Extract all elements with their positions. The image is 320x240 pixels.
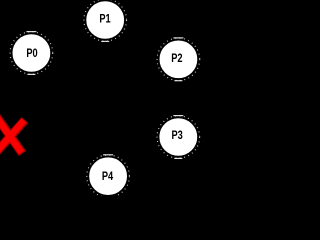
svg-text:P3: P3 [171, 128, 183, 142]
node P2 circle with halo [157, 38, 200, 81]
svg-text:P1: P1 [99, 11, 111, 25]
X dark rim stroke 1 [0, 116, 22, 154]
svg-text:P4: P4 [102, 169, 114, 183]
node P1 circle with halo [84, 0, 127, 41]
X dark rim stroke 2 [0, 120, 25, 154]
X bright stroke 1 [0, 116, 21, 152]
node P4 circle with halo [87, 155, 130, 198]
red X mark (failure cross), partially cut at left edge [0, 116, 25, 154]
node P3 circle with halo [157, 116, 200, 159]
X bright stroke 2 [0, 120, 24, 153]
svg-text:P0: P0 [26, 46, 38, 60]
node P0 circle with halo [10, 32, 53, 75]
svg-text:P2: P2 [171, 51, 183, 65]
